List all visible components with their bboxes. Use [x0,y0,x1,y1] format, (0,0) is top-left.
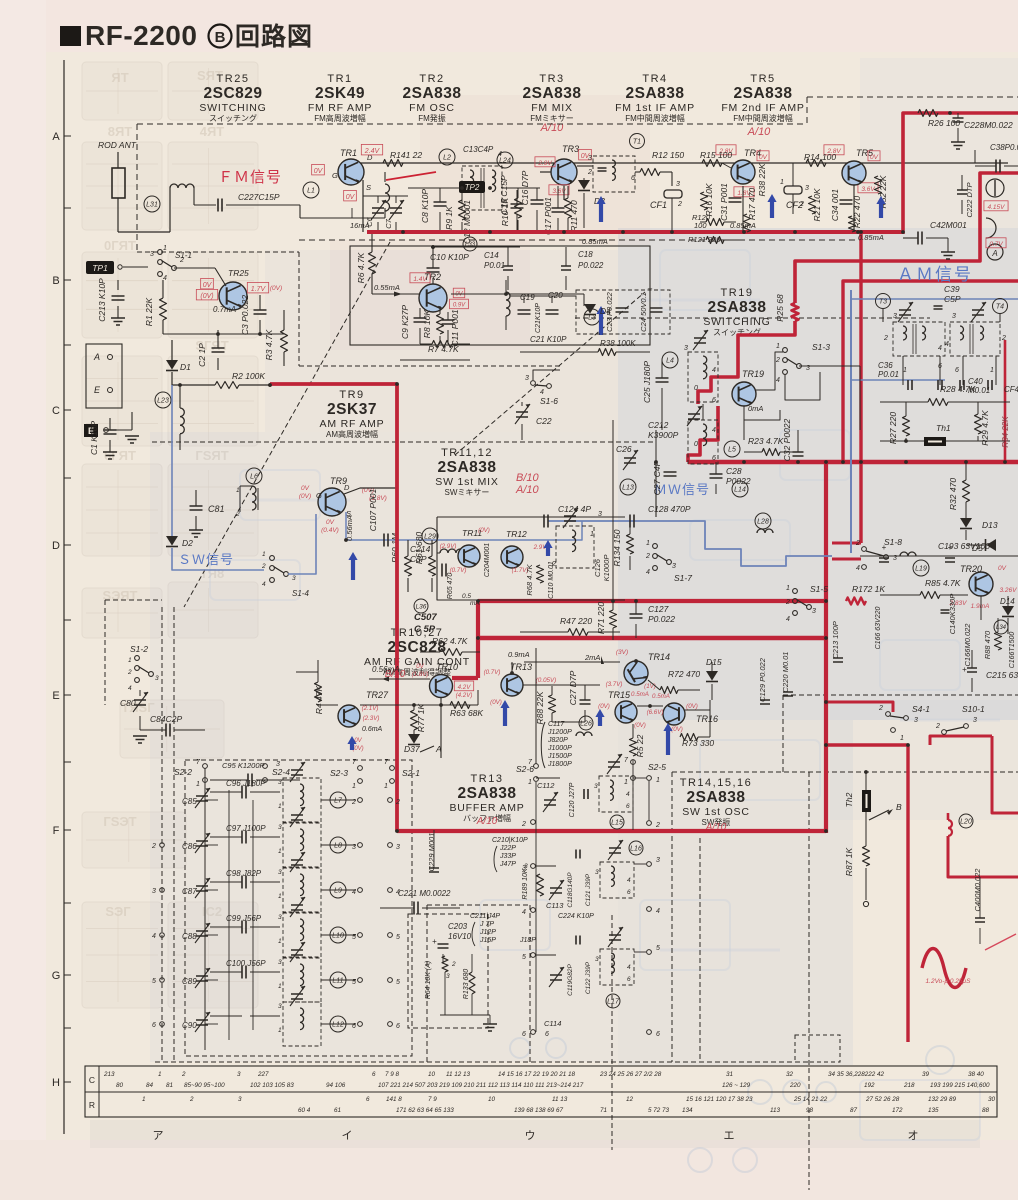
header TR3 [522,73,581,123]
svg-text:T1: T1 [633,139,641,146]
svg-text:2SK37: 2SK37 [327,401,377,418]
dashed bottom rail [155,1061,808,1063]
svg-text:C40: C40 [968,377,983,386]
svg-text:B/10: B/10 [516,472,540,484]
svg-text:TR27: TR27 [366,690,389,700]
svg-text:0.85mA: 0.85mA [582,237,608,246]
coil L2 [439,149,455,165]
capacitor C222 [957,175,974,218]
svg-text:0V: 0V [870,154,879,161]
svg-text:D15: D15 [706,657,722,667]
svg-text:C25 J180P: C25 J180P [642,361,652,403]
svg-text:C7: C7 [384,218,393,228]
svg-text:R17 470: R17 470 [747,188,757,220]
transistor TR20 [960,564,993,596]
svg-text:R2 100K: R2 100K [232,371,265,381]
resistor R9 [444,188,466,232]
terminal circles right [521,776,660,1038]
label A/10 fm-if [747,126,772,138]
wire tr4 down [743,163,793,232]
transistor TR25 [215,268,249,310]
svg-text:3: 3 [672,563,676,570]
red fm riser [903,113,1018,234]
label MW signal [654,482,710,497]
svg-text:(2.1V): (2.1V) [362,705,379,712]
svg-text:A: A [991,249,997,258]
svg-text:R141 22: R141 22 [390,150,422,160]
switch S1-6 [525,375,558,406]
svg-text:C122 J39P: C122 J39P [585,961,592,994]
resistor R32 470 [948,462,970,518]
svg-text:R47 220: R47 220 [560,616,592,626]
svg-text:113: 113 [770,1107,781,1114]
svg-text:FM高周波増幅: FM高周波増幅 [314,113,366,123]
svg-text:14 15 16 17 22 19 20 21 18: 14 15 16 17 22 19 20 21 18 [498,1071,576,1078]
svg-text:6: 6 [955,367,959,374]
transistor TR4 [731,148,761,184]
svg-text:1: 1 [236,487,240,494]
blue am path [851,290,1018,553]
voltage TR25 a [196,278,217,300]
svg-text:220: 220 [789,1082,801,1089]
svg-text:ＭＷ信号: ＭＷ信号 [654,482,710,497]
svg-text:ЯТ: ЯТ [111,70,128,85]
svg-text:1: 1 [278,803,282,810]
svg-text:FM 1st IF AMP: FM 1st IF AMP [615,102,695,114]
svg-text:8ЯТ: 8ЯТ [108,124,133,139]
svg-text:C203: C203 [448,922,468,931]
mw coil box [551,508,594,568]
title block [60,20,313,51]
label 16mA [350,208,370,230]
dashed diagonal sw [455,292,645,455]
svg-text:0.7V: 0.7V [989,241,1003,248]
resistor R133 680 [440,954,497,1031]
capacitor C11 [442,309,461,346]
svg-text:3: 3 [276,761,280,768]
svg-text:R1 22K: R1 22K [144,297,154,326]
svg-text:D: D [344,483,350,492]
resistor R68 [525,563,544,595]
svg-text:2: 2 [587,169,592,176]
svg-text:TP2: TP2 [465,183,480,192]
coil L34 [994,620,1008,634]
svg-text:7 9 8: 7 9 8 [385,1071,400,1078]
svg-text:3: 3 [278,869,282,876]
svg-text:C32 P0022: C32 P0022 [782,418,792,461]
svg-text:0.9V: 0.9V [453,303,466,309]
svg-text:C507: C507 [414,612,437,623]
resistor R85 [880,578,968,599]
svg-text:2SA838: 2SA838 [437,459,496,476]
resistor R28 [880,384,1010,406]
capacitor C2 [197,330,225,370]
transistor TR15 [608,690,637,723]
wire tr2 row [451,292,584,306]
svg-text:S1-2: S1-2 [130,644,148,654]
transistor TR11 [458,528,482,567]
capacitor C84 [133,714,205,743]
svg-text:85~90 95~100: 85~90 95~100 [184,1082,225,1089]
svg-text:4: 4 [712,427,716,434]
svg-text:0ГЯТ: 0ГЯТ [104,238,136,253]
svg-text:1: 1 [590,531,594,538]
svg-text:S1-7: S1-7 [674,573,692,583]
coil label L31 [144,196,160,212]
svg-text:L34: L34 [996,625,1007,631]
dashed box small br [795,1035,840,1062]
header TR1 [308,73,372,123]
svg-text:S1-4: S1-4 [292,589,309,598]
svg-text:TR1: TR1 [327,73,352,85]
capacitor C114 G82P [545,1031,549,1038]
svg-text:126 ~ 129: 126 ~ 129 [722,1082,751,1089]
switch S2-3 [330,759,362,790]
svg-text:R8 10K: R8 10K [422,309,432,338]
svg-text:L23: L23 [157,398,169,405]
svg-text:SW 1st OSC: SW 1st OSC [682,806,750,818]
svg-text:C87: C87 [182,887,197,896]
dashed box c203 [408,914,488,1028]
svg-text:2: 2 [785,599,790,606]
wire fm-sig red [386,172,436,180]
svg-text:107 221 214 507 203 219 109 21: 107 221 214 507 203 219 109 210 211 112 … [378,1082,584,1089]
svg-text:C213 K10P: C213 K10P [97,278,107,322]
svg-text:ウ: ウ [525,1129,536,1142]
resistor R121 [688,235,740,244]
capacitor C214 [410,544,431,564]
header TR19 [703,287,770,337]
transistor TR2 [419,272,447,312]
svg-text:3.26V: 3.26V [1000,587,1018,594]
svg-text:FM OSC: FM OSC [409,102,455,114]
svg-text:C42M001: C42M001 [930,220,967,230]
resistor R65 470 [447,573,454,600]
wire osc verticals [536,760,660,1032]
svg-text:TR3: TR3 [562,144,579,154]
circle T3 [876,294,891,309]
svg-text:(0V): (0V) [686,703,698,710]
dashed box swosc [672,695,1018,1190]
svg-text:回路図: 回路図 [235,23,313,51]
svg-text:TR16: TR16 [696,714,718,724]
svg-text:(4.2V): (4.2V) [456,692,473,699]
svg-text:102 103 105 83: 102 103 105 83 [250,1082,294,1089]
svg-text:31: 31 [726,1071,733,1078]
capacitor C204 [484,543,491,577]
label Cm T1500 [1009,632,1016,669]
svg-text:C6: C6 [365,216,374,226]
svg-text:2: 2 [935,723,940,730]
capacitor C213 [97,278,125,325]
svg-text:5: 5 [656,945,660,952]
coil bank row L9 [182,852,400,912]
svg-text:S2-5: S2-5 [648,762,666,772]
capacitor C14 [484,247,513,290]
svg-text:3: 3 [595,869,599,876]
svg-text:H: H [52,1077,60,1089]
svg-text:1: 1 [163,245,167,252]
row letter D [52,540,60,552]
svg-text:TP1: TP1 [92,263,108,273]
svg-text:139 68 138 69 67: 139 68 138 69 67 [514,1107,564,1114]
svg-text:G: G [52,970,61,982]
blue arrow r52 [876,196,885,218]
label 0.7mA [213,305,236,314]
label 0.85mA a [582,237,608,246]
coil label L28 [755,513,773,533]
svg-text:C38P0.01: C38P0.01 [990,143,1018,152]
svg-text:C10 K10P: C10 K10P [430,252,469,262]
resistor R60 [390,532,412,592]
svg-text:4: 4 [945,341,949,348]
svg-text:J47P: J47P [499,861,516,868]
label A/10 swosc [705,822,727,833]
svg-text:1: 1 [278,938,282,945]
coil label L13 [620,479,636,495]
svg-text:R23 4.7K: R23 4.7K [748,436,784,446]
svg-text:2: 2 [645,553,650,560]
coil bank row L11 [182,942,400,1002]
svg-text:2: 2 [775,357,780,364]
coil label L15 [610,815,624,829]
svg-text:4: 4 [262,581,266,588]
svg-text:C229 M001: C229 M001 [427,833,436,872]
resistor R6 [356,232,419,297]
resistor R4 47K [314,672,338,714]
diode D5 [966,539,996,553]
wire c19 row [510,296,576,303]
svg-text:(2.3V): (2.3V) [363,715,380,722]
coil label L17 [606,994,620,1008]
svg-text:S1-5: S1-5 [810,584,828,594]
svg-text:3: 3 [684,345,688,352]
svg-text:88: 88 [982,1107,990,1114]
red br vertical 908 [906,745,909,1042]
svg-text:94 106: 94 106 [326,1082,346,1089]
wire c10 up [431,245,520,249]
svg-text:1.2Vo-p 0.25μS: 1.2Vo-p 0.25μS [926,978,972,985]
label 0.85mA b [858,233,884,242]
svg-text:C34 001: C34 001 [830,189,840,221]
svg-text:+: + [647,284,652,294]
blue arrow l3 [596,306,605,335]
svg-text:C114: C114 [544,1019,561,1028]
svg-text:C9 K27P: C9 K27P [400,305,410,339]
svg-text:S1-3: S1-3 [812,342,830,352]
svg-text:L29: L29 [424,534,436,541]
svg-text:R62 4.7K: R62 4.7K [432,636,468,646]
svg-text:C107 P001: C107 P001 [368,488,378,531]
header TR14-16 [680,777,752,827]
svg-text:A/10: A/10 [747,126,772,138]
svg-text:S: S [366,183,371,192]
svg-text:0.85mA: 0.85mA [858,233,884,242]
svg-text:3.6V: 3.6V [861,186,875,193]
red fm line [367,230,903,234]
svg-text:3: 3 [594,783,598,790]
svg-text:3: 3 [278,824,282,831]
svg-text:3: 3 [278,914,282,921]
capacitor C166 [963,623,972,667]
svg-text:C119G82P: C119G82P [567,964,574,996]
svg-text:D1: D1 [180,362,191,372]
svg-text:L10: L10 [332,933,344,940]
red am branch 861 [832,232,861,559]
label 2mA [584,653,604,664]
resistor R5 22 [630,724,646,757]
svg-text:3: 3 [278,959,282,966]
am caps row [903,356,996,390]
svg-text:L15: L15 [611,820,623,827]
svg-text:C98 J82P: C98 J82P [226,869,262,878]
label 0.5mA sw [462,593,480,607]
header TR9 [320,389,385,439]
capacitor C42 [903,220,967,259]
svg-text:C27 C4P: C27 C4P [652,460,662,495]
coil label L24 [497,152,513,168]
svg-text:K3900P: K3900P [648,430,679,440]
capacitor C3 [240,295,267,335]
svg-text:TR11,12: TR11,12 [441,447,493,459]
blue arrow tr15 [595,709,604,726]
svg-text:7 9: 7 9 [428,1096,437,1103]
svg-text:A: A [52,131,60,143]
svg-text:C22: C22 [536,416,552,426]
capacitor C38 [975,143,1018,173]
svg-text:10: 10 [488,1096,496,1103]
blue arrow tr13 [500,700,509,726]
svg-text:84: 84 [146,1082,154,1089]
svg-text:J820P: J820P [547,737,568,744]
svg-text:B: B [215,29,226,46]
capacitor C34 [830,189,853,221]
svg-text:0.5mA: 0.5mA [631,691,649,698]
blue arrow tr27 [347,736,356,750]
svg-text:AM RF AMP: AM RF AMP [320,418,385,430]
capacitor C128 [630,504,691,528]
svg-text:0V: 0V [455,292,463,298]
resistor R120 [692,213,736,230]
svg-text:1: 1 [786,585,790,592]
wire fm bottom rails [400,232,470,360]
resistor R72 470 [648,669,700,694]
dashed border fm top [137,97,1018,124]
switch S4-1 [878,704,930,742]
svg-text:71: 71 [600,1107,607,1114]
coil L3 [506,280,600,330]
svg-text:TR1: TR1 [340,148,357,158]
svg-text:C95 K1200P: C95 K1200P [222,761,265,770]
capacitor C24 [639,284,663,332]
dashed bottom verticals [611,915,613,1150]
wire sw to tr9 [288,514,316,574]
wire tr1 s [362,180,364,232]
dashed verticals gain left [162,607,174,1062]
transistor TR9 [316,476,351,518]
svg-text:R: R [89,1100,95,1110]
svg-text:C81: C81 [208,504,225,514]
svg-text:P0.01: P0.01 [484,261,505,270]
voltage 3.6V tr5 [858,183,878,193]
svg-text:(1V): (1V) [644,683,656,690]
osc coil group 3 [595,927,634,985]
blue arrow tr16 [663,723,672,755]
resistor R29 4.7K [975,402,991,446]
svg-text:213: 213 [103,1071,115,1078]
capacitor C229 [427,830,439,872]
svg-text:C166M0.022: C166M0.022 [963,623,972,667]
svg-text:C5P: C5P [944,294,961,304]
capacitor C220 [781,652,793,696]
capacitor C400 [973,868,985,944]
svg-text:E: E [52,690,59,702]
voltage TR4 [716,145,769,161]
svg-text:C1 K10P: C1 K10P [89,421,99,455]
svg-text:4: 4 [656,908,660,915]
capacitor C114 trim [519,936,592,1029]
svg-text:L5: L5 [728,447,736,454]
header TR5 [721,73,804,123]
wire mw feed [613,462,656,652]
svg-text:0: 0 [694,385,698,392]
svg-text:2SA838: 2SA838 [402,85,461,102]
svg-text:TR13: TR13 [471,773,504,785]
red right edge drop [1004,340,1007,462]
svg-text:CF4: CF4 [1004,385,1018,394]
resistor R88 22K [535,686,556,725]
svg-text:4: 4 [522,909,526,916]
svg-text:J1800P: J1800P [547,761,572,768]
resistor R64 [425,956,456,1015]
svg-text:S2-1: S2-1 [402,768,420,778]
transistor TR12 [501,529,527,568]
svg-text:2: 2 [179,257,184,264]
svg-text:0V: 0V [326,519,335,526]
svg-text:L4: L4 [666,358,674,365]
svg-text:(0.05V): (0.05V) [536,677,556,684]
coil L19 [900,552,929,576]
capacitor C126 [593,555,611,582]
svg-text:R6 4.7K: R6 4.7K [356,252,366,283]
svg-text:3: 3 [812,608,816,615]
svg-text:R26 100: R26 100 [928,118,960,128]
label C40 [968,377,1018,395]
svg-text:227: 227 [257,1071,269,1078]
transistor TR5 [842,148,874,185]
resistor R134 [612,521,634,570]
row letter B [52,275,59,287]
svg-text:0.55mA: 0.55mA [374,283,400,292]
red resistor R72 1K [846,598,866,605]
svg-text:C215 63: C215 63 [986,670,1018,680]
svg-text:C39: C39 [944,284,960,294]
svg-text:2: 2 [855,540,860,547]
svg-text:R87 1K: R87 1K [844,847,854,876]
svg-text:L36: L36 [416,603,427,610]
header TR13 [449,773,524,823]
capacitor C1 [89,418,117,459]
svg-text:3: 3 [522,865,526,872]
label 0.56mA [372,665,400,674]
dashed box c23 [576,290,670,334]
svg-text:L13: L13 [622,485,634,492]
capacitor C203 [432,920,472,962]
diode D14 [1000,596,1015,634]
label SW signal [178,552,234,567]
svg-text:C214: C214 [410,544,431,554]
dashed box coilbank [185,760,412,1056]
